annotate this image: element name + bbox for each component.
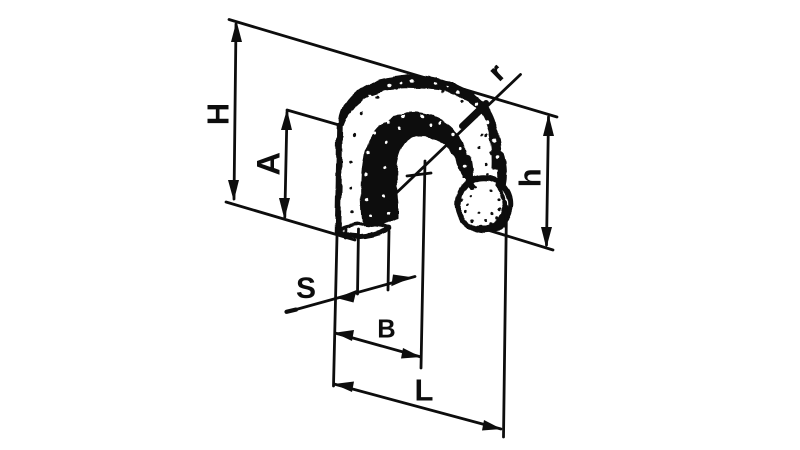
dim line B (335, 333, 421, 357)
extension line top (H to h) (229, 20, 557, 118)
svg-text:S: S (296, 272, 316, 305)
hook inner band (361, 113, 470, 227)
arrow B left (335, 330, 354, 341)
svg-text:L: L (415, 373, 434, 408)
dim line A (285, 112, 287, 217)
tube to ball junction left (468, 177, 471, 186)
arrow A bottom (279, 198, 290, 219)
arrow S right (391, 275, 412, 287)
arrow L left (334, 382, 354, 393)
hook outer arc band (339, 75, 501, 170)
svg-text:B: B (377, 316, 395, 344)
center line vertical (421, 161, 425, 368)
arrow h bottom (541, 227, 552, 248)
svg-text:h: h (513, 168, 548, 187)
tube surface stipple dots (348, 84, 495, 213)
svg-text:A: A (251, 152, 287, 175)
svg-text:r: r (482, 58, 510, 87)
hook left outer edge (338, 126, 340, 231)
hook body (drawn sketchy) (337, 75, 511, 237)
white speckles on inner band (364, 114, 467, 216)
S left extension / B,L left extension (334, 236, 338, 386)
dimension drawing (crisp lines) (226, 20, 557, 438)
dim line S left end blob (287, 310, 297, 312)
white speckles on outer band (350, 79, 498, 160)
L right extension line (504, 206, 507, 437)
arrow S left (337, 290, 357, 303)
dim line L (334, 384, 501, 429)
ellipse face tick (344, 229, 347, 238)
arrow L right (482, 420, 502, 431)
extension line h bottom (ball tangent) (478, 227, 553, 250)
arrow A top (281, 110, 292, 131)
hook throat right inner edge (468, 158, 470, 182)
radius line r arrow blob (462, 103, 486, 126)
hook bottom end ellipse top (339, 225, 388, 230)
extension line A top (287, 110, 339, 125)
arrow B right (401, 348, 421, 359)
dim line h (547, 117, 549, 245)
dim line H (234, 24, 236, 199)
ball shading dots (460, 186, 502, 228)
tube to ball junction right (500, 172, 502, 188)
center mark tick (407, 173, 431, 176)
radius line r (390, 75, 521, 200)
ball shading crescent (496, 185, 505, 227)
ball end (458, 178, 511, 231)
extension line bottom (H and A to hook foot) (226, 202, 355, 240)
hook throat right outer edge (500, 156, 502, 186)
ball lower right heavy edge (478, 217, 503, 229)
S right extension line (388, 231, 389, 290)
arrow H bottom (228, 180, 239, 201)
arrow H top (231, 21, 242, 42)
arrow h top (543, 115, 554, 137)
hook bottom end ellipse (337, 228, 389, 237)
dim line S (287, 277, 415, 313)
arrowheads (228, 21, 554, 431)
S inner extension line (358, 229, 359, 294)
svg-text:H: H (201, 103, 236, 125)
